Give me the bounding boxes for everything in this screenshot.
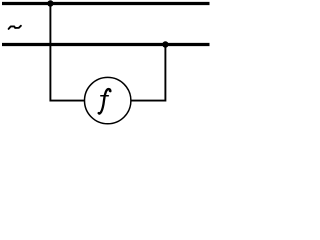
AC source symbol ~ xyxy=(9,26,21,29)
frequency meter P1 (circle body) xyxy=(85,77,131,123)
node: junction on top line xyxy=(47,0,53,6)
wire: top AC supply line L1 xyxy=(2,2,210,5)
meter label f xyxy=(98,89,111,114)
wire: left lead from top line down and right to meter xyxy=(50,4,85,101)
node: junction on bottom line xyxy=(162,41,168,47)
wire: bottom AC supply line L2 xyxy=(2,43,210,46)
wire: right lead from bottom line down and left to meter xyxy=(131,45,166,101)
